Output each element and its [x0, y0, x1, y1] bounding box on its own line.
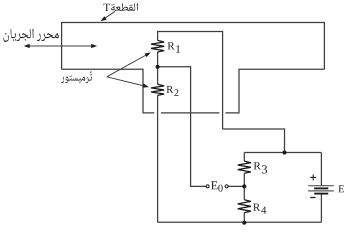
arrow: piece T pointer — [103, 11, 115, 20]
label: flow source (Arabic) — [3, 29, 58, 42]
label E0 — [211, 181, 223, 191]
wire: duct bottom wall left — [62, 69, 155, 113]
wire: bridge top rail — [244, 152, 321, 154]
wire: duct notch bottom right — [226, 69, 325, 113]
wire: battery leads — [320, 153, 322, 186]
junction node R3-R4 — [242, 184, 246, 188]
wire: E0 right to bridge mid — [228, 185, 244, 187]
wire: R4 leads — [243, 186, 245, 199]
terminal E0 right — [225, 185, 228, 188]
battery minus sign — [310, 197, 315, 199]
label: thermistor (Arabic) — [61, 71, 92, 83]
junction node bottom rail — [242, 221, 246, 225]
junction node R1-R2 — [156, 65, 160, 69]
wire: R3 leads — [243, 153, 245, 162]
label R3 — [254, 162, 267, 173]
label: piece T (Arabic) — [111, 3, 138, 10]
wire: junction to E0 — [158, 67, 206, 187]
wire: probe right link to bridge — [223, 129, 285, 153]
wire: R1-R2 branch — [157, 52, 159, 84]
resistor R4 — [238, 200, 251, 213]
battery E plates — [308, 186, 334, 194]
battery plus sign — [310, 174, 316, 180]
wire: probe body top — [158, 32, 223, 130]
label E battery — [338, 185, 344, 192]
terminal E0 left — [206, 185, 209, 188]
arrow: flow double-headed — [29, 45, 93, 47]
label R2 — [167, 86, 179, 96]
label R4 — [253, 204, 266, 214]
label: T — [104, 4, 110, 11]
wire: duct top wall — [62, 23, 325, 70]
arrow: thermistor to R1 — [107, 55, 146, 77]
wire: duct notch bottom mid — [161, 112, 220, 114]
resistor R2 — [151, 84, 164, 95]
label R1 — [168, 42, 181, 53]
resistor R1 — [151, 40, 164, 52]
arrow: thermistor to R2 — [107, 77, 145, 86]
junction node bridge top — [282, 150, 286, 154]
wire: bottom rail — [158, 221, 322, 223]
resistor R3 — [238, 161, 251, 173]
